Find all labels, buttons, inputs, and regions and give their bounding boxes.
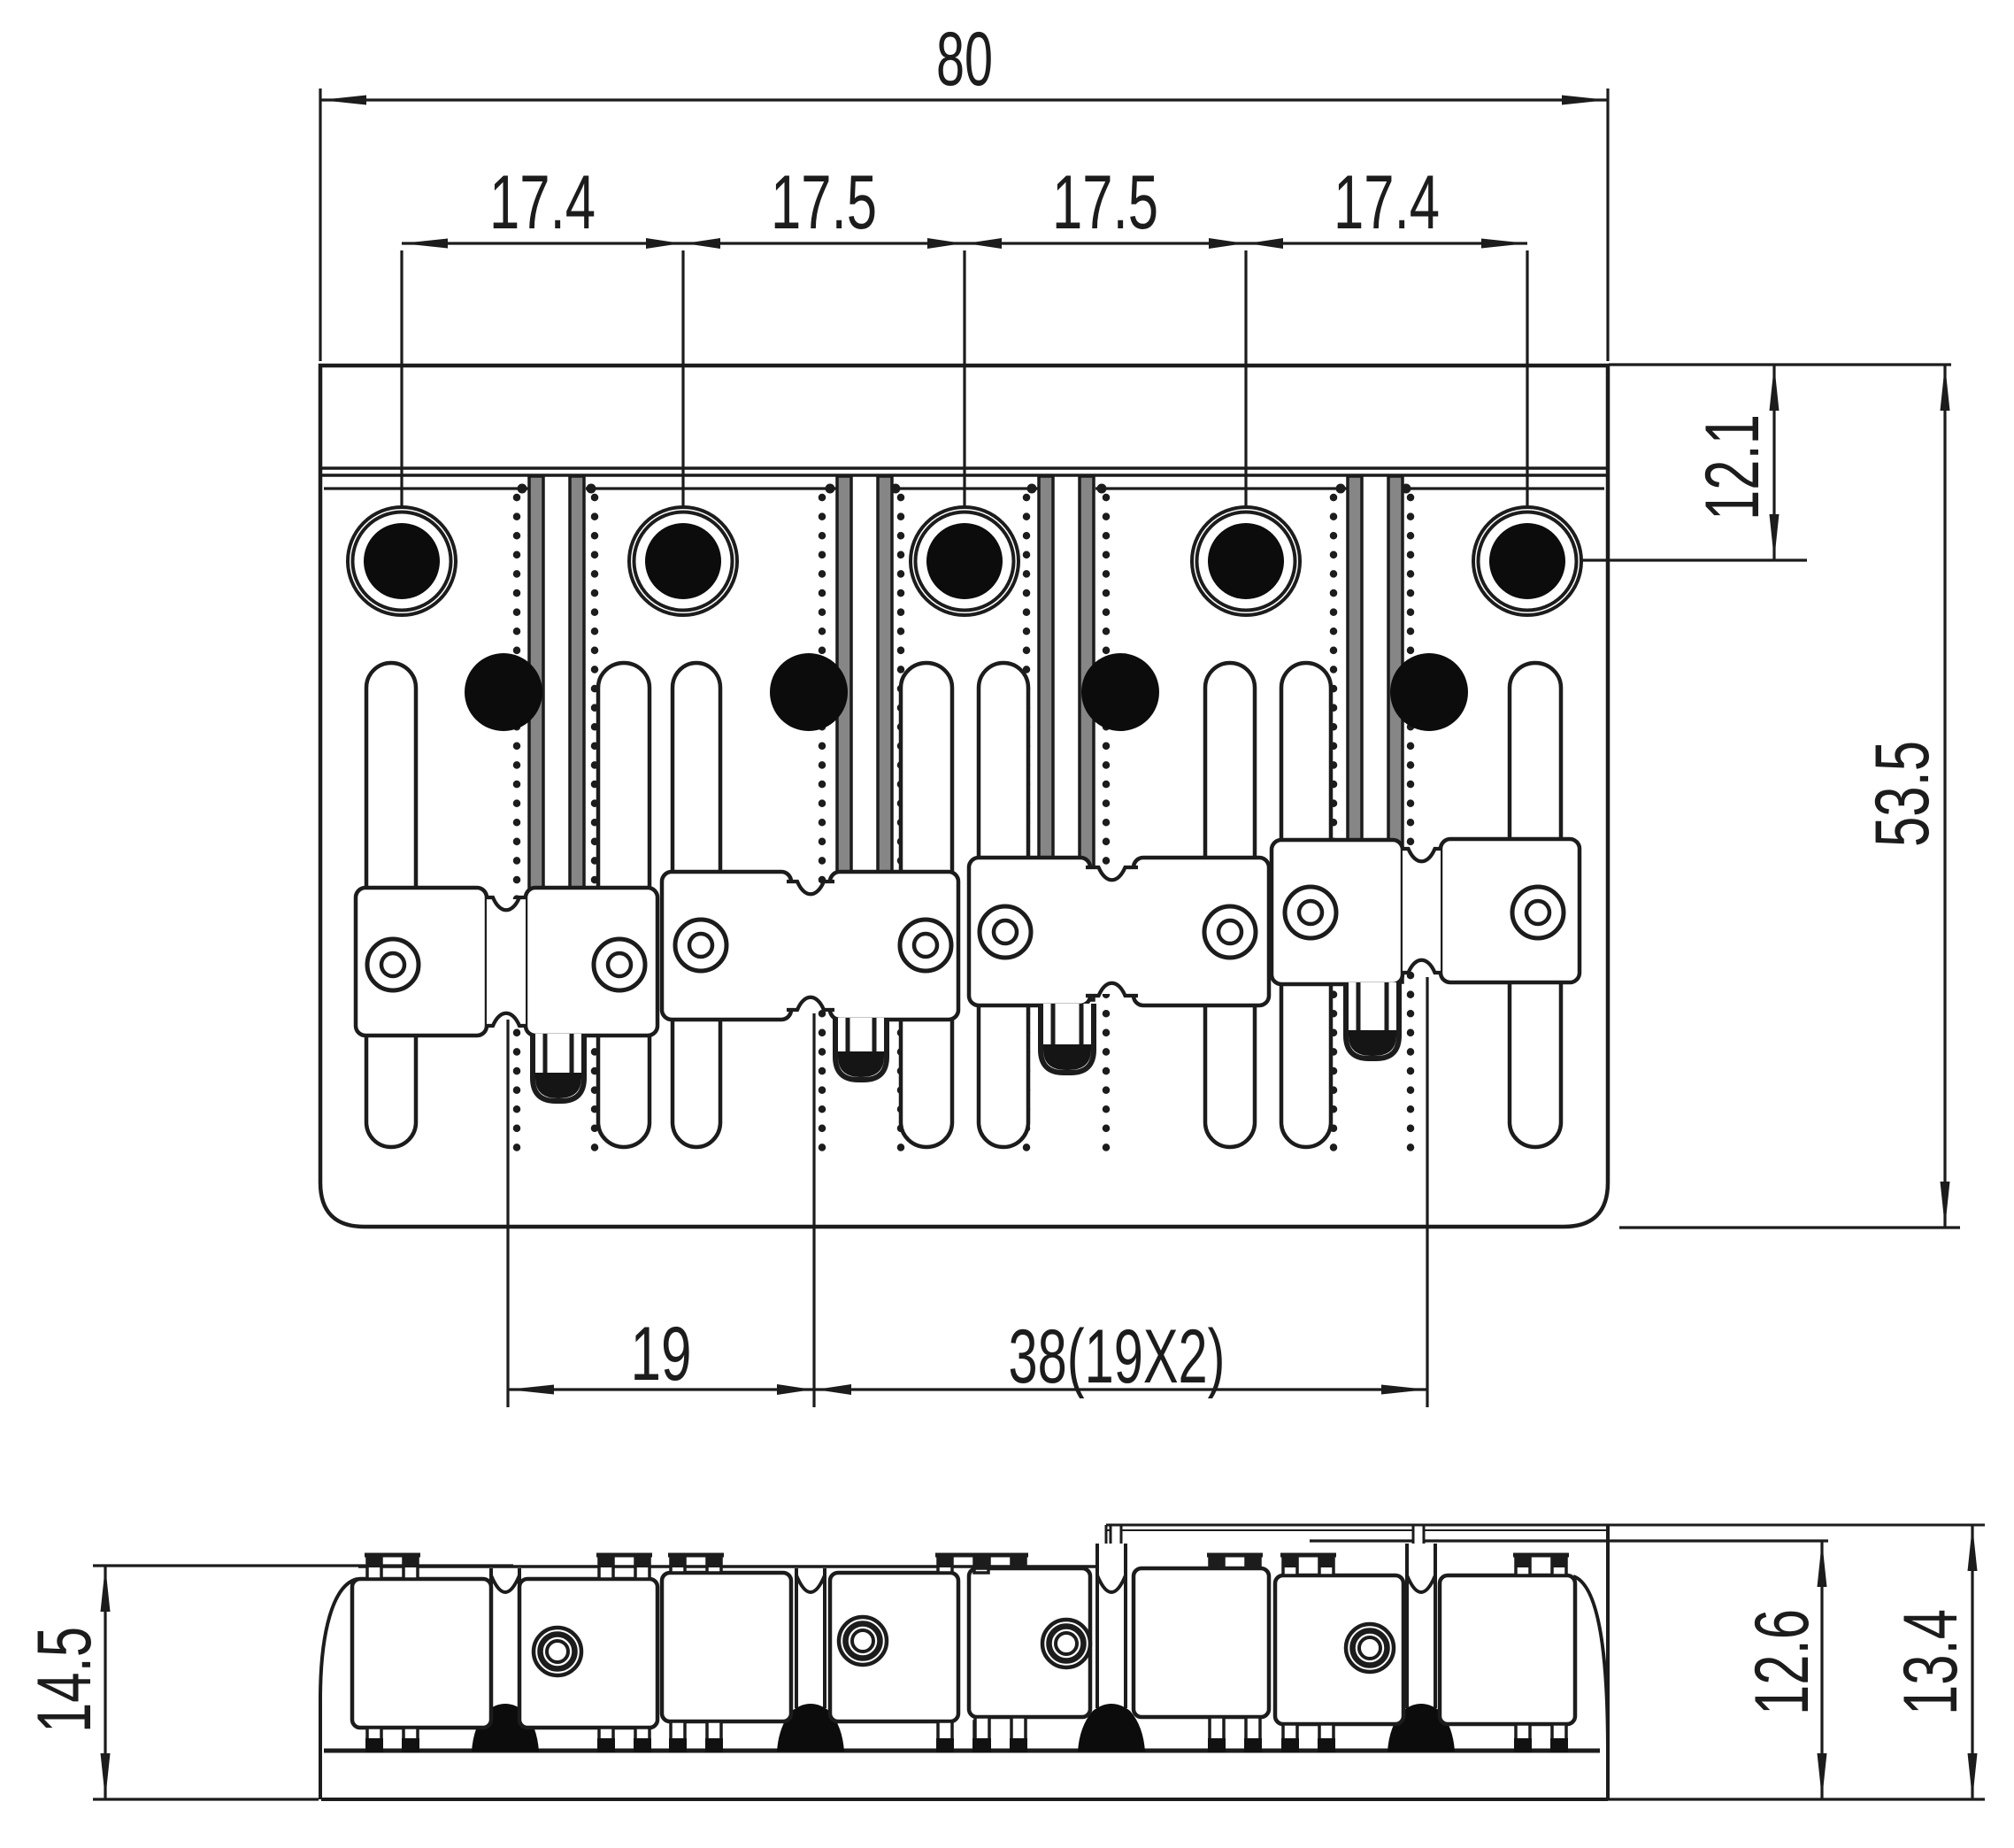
dimension 14.5 (saddle height) [93,1564,513,1567]
svg-text:17.4: 17.4 [489,160,596,245]
side view: height screw tip 2 [599,1728,613,1740]
string 4 through-hole [1390,653,1468,731]
side view: height screw head 1 [367,1555,381,1579]
intonation screw shaft 3 (top view) [1039,476,1053,1000]
side view: screw channel 1 [491,1568,519,1699]
side view: height screw tip 8 [1516,1724,1530,1740]
dimension 12.1 (hole offset) [1609,363,1951,366]
dotted guide line 4 [897,497,905,1149]
svg-text:17.5: 17.5 [1052,160,1158,245]
saddle height screw 1 (top view) [367,939,419,990]
side view: intonation screw head 2 [839,1617,887,1665]
saddle height screw 8 (top view) [1512,887,1564,938]
string 3 through-hole [1081,653,1159,731]
side view: intonation screw head 3 [1042,1620,1090,1667]
saddle block B4 (top view) [830,872,958,1020]
side view: string ball-end dome 1 [472,1704,539,1752]
saddle travel slot 5 [979,663,1028,1147]
saddle height screw 7 (top view) [1285,887,1336,938]
saddle travel slot 6 [1205,663,1255,1147]
saddle travel slot 4 [901,663,952,1147]
side view: saddle block B5 [969,1568,1090,1717]
side view: string ball-end dome 3 [1078,1704,1145,1752]
dotted guide line 1 [513,497,521,1149]
saddle travel slot 7 [1281,663,1331,1147]
side view: back flange top [1106,1524,1985,1527]
saddle waist neck 2 [788,883,833,1008]
intonation screw tip 4 [1346,982,1399,1059]
side view: flange lip line [1310,1539,1828,1542]
dotted guide line 2 [591,497,599,1149]
saddle height screw 6 (top view) [1204,906,1256,958]
saddle block B7 (top view) [1272,840,1403,984]
svg-text:80: 80 [936,17,993,102]
side view: screw channel 4 [1407,1544,1435,1699]
saddle block B5 (top view) [969,858,1090,1005]
side view: height screw head 3 [671,1555,685,1573]
saddle travel slot 3 [673,663,720,1147]
saddle block B3 (top view) [662,872,791,1020]
side view: height screw head 8 [1516,1555,1530,1575]
saddle block B6 (top view) [1134,858,1269,1005]
saddle travel slot 8 [1510,663,1561,1147]
dimension 12.6 [1608,1798,1985,1800]
saddle waist neck 4 [1403,851,1441,971]
svg-text:38(19X2): 38(19X2) [1009,1314,1226,1399]
intonation screw shaft 1 (top view) [529,476,543,1018]
svg-text:17.5: 17.5 [771,160,877,245]
intonation screw tip 2 [835,1018,887,1080]
dotted guide line 8 [1407,497,1415,1149]
dotted guide line 6 [1103,497,1111,1149]
side view: base plate top surface [324,1749,1600,1753]
svg-text:53.5: 53.5 [1860,741,1945,847]
saddle waist neck 3 [1088,869,1136,994]
string 2 through-hole [770,653,848,731]
intonation screw shaft 4 (top view) [1348,476,1362,982]
intonation screw tip 3 [1041,1004,1094,1073]
string 1 through-hole [465,653,542,731]
side view: height screw tip 3 [671,1721,685,1740]
side view: intonation screw head 4 [1346,1624,1394,1672]
intonation screw tip 1 [533,1034,584,1101]
side view: flange string slot 1 [1111,1525,1121,1593]
mounting screw hole 3 [911,507,1019,615]
side view: saddle block B4 [830,1573,958,1721]
side view: height screw tip 7 [1283,1724,1297,1740]
saddle height screw 4 (top view) [900,920,951,971]
side view: string ball-end dome 4 [1388,1704,1455,1752]
bridge base plate (top view) [320,366,1608,1227]
side view: saddle block B7 [1275,1575,1403,1724]
side view: screw channel 2 [796,1568,825,1699]
dimensions 17.4 / 17.5 / 17.5 / 17.4 (hole spacing) [400,250,403,508]
side view: base plate profile [320,1579,357,1799]
mounting screw hole 1 [348,507,456,615]
side view: height screw tip 1 [367,1728,381,1740]
svg-text:17.4: 17.4 [1334,160,1440,245]
dimension 80 (overall width) [319,89,321,361]
side view: saddle block B6 [1134,1568,1269,1717]
side view: height screw head 4 [938,1555,952,1573]
dimension 53.5 (overall depth) [1619,1226,1960,1228]
side view: saddle block B2 [519,1579,657,1728]
mounting screw hole 2 [629,507,737,615]
side view: height screw head 2 [599,1555,613,1579]
saddle block B2 (top view) [526,888,657,1036]
side view: height screw tip 5 [975,1717,989,1740]
side view: saddle block B3 [662,1573,791,1721]
dotted guide line 3 [819,497,826,1149]
saddle height screw 3 (top view) [675,920,726,971]
svg-text:12.6: 12.6 [1740,1609,1825,1715]
side view: height screw tip 6 [1210,1717,1224,1740]
side view: saddle rail top line [358,1565,1106,1568]
side view: right end curve [1573,1576,1608,1752]
dotted guide line 5 [1023,497,1031,1149]
saddle block B8 (top view) [1441,839,1580,982]
side view: saddle block B1 [352,1579,491,1728]
svg-text:12.1: 12.1 [1690,414,1775,520]
side view: height screw head 5 [975,1555,989,1568]
side view: height screw tip 4 [938,1721,952,1740]
saddle block B1 (top view) [356,888,487,1036]
saddle height screw 5 (top view) [980,906,1031,958]
side view: saddle block B8 [1440,1575,1575,1724]
side view: flange string slot 2 [1413,1525,1424,1593]
mounting screw hole 4 [1192,507,1300,615]
svg-text:19: 19 [631,1312,692,1397]
side view: intonation screw head 1 [534,1628,581,1675]
intonation screw shaft 2 (top view) [837,476,851,1018]
dotted guide line 7 [1330,497,1338,1149]
side view: string ball-end dome 2 [777,1704,844,1752]
saddle travel slot 2 [598,663,650,1147]
side view: screw channel 3 [1097,1544,1126,1699]
svg-text:14.5: 14.5 [22,1627,107,1733]
saddle travel slot 1 [366,663,416,1147]
side view: height screw head 6 [1210,1555,1224,1568]
saddle height screw 2 (top view) [594,939,645,990]
saddle section top lines [324,487,528,489]
back flange edge lines [320,466,1608,470]
side view: height screw head 7 [1283,1555,1297,1575]
dimensions 19 and 38(19X2) (string spacing) [506,1020,509,1407]
saddle waist neck 1 [487,899,526,1024]
mounting screw hole 5 [1473,507,1581,615]
dimension 13.4 [1971,1525,1973,1799]
svg-text:13.4: 13.4 [1888,1609,1973,1715]
